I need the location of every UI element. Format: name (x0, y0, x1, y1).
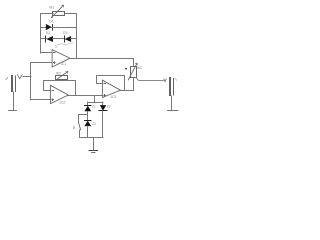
svg-text:W3: W3 (137, 66, 142, 70)
diode D6 (84, 121, 91, 138)
ground (89, 138, 98, 153)
wire IC1 top input (41, 52, 52, 54)
wire IC3 output (121, 90, 134, 92)
wire diode bus (88, 102, 103, 104)
svg-text:Z2: Z2 (107, 105, 111, 109)
wire IC3 feedback loop (97, 76, 125, 91)
label V (earphone) (164, 79, 166, 82)
wire switch branch (79, 115, 88, 123)
earphone PH1 (167, 78, 177, 111)
wire feedback right rail (76, 14, 78, 59)
diode D5 (99, 102, 107, 138)
wire drop to limiter diodes (94, 95, 96, 102)
wire mic to input rail (23, 76, 31, 78)
svg-text:B: B (73, 125, 76, 130)
svg-text:1C1: 1C1 (60, 62, 66, 66)
wire to earphone (136, 78, 163, 81)
svg-text:D2: D2 (46, 31, 50, 35)
artifact squiggle (55, 43, 73, 48)
diode D2 (41, 36, 64, 42)
rheostat W2 (55, 71, 67, 80)
op-amp IC1 (52, 50, 70, 67)
tick right of earphone (175, 78, 176, 80)
rheostat W1 (41, 5, 77, 18)
wire IC1 output to W3 (71, 59, 134, 67)
wire to IC2 lower input (31, 99, 50, 101)
svg-text:1C3: 1C3 (110, 95, 116, 99)
tick left edge (6, 78, 8, 80)
wire IC2 output to IC3 lower input (67, 95, 102, 97)
op-amp IC3 (102, 80, 120, 97)
svg-text:1C2: 1C2 (59, 101, 65, 105)
microphone MIC1 (8, 76, 16, 111)
node input rail (30, 63, 32, 100)
svg-text:D1: D1 (49, 19, 53, 23)
svg-text:W1: W1 (49, 6, 54, 10)
svg-text:Z3: Z3 (92, 122, 96, 126)
diode D1 (41, 24, 77, 30)
wire W2 to IC2 output (56, 81, 76, 96)
op-amp IC2 (50, 85, 68, 103)
switch B (79, 123, 81, 138)
rheostat W3 (125, 63, 137, 90)
svg-text:D3: D3 (63, 31, 67, 35)
wire bottom rail (80, 137, 103, 139)
svg-text:W2: W2 (56, 71, 61, 75)
diode D3 (65, 36, 77, 42)
wire IC2 top input / feedback loop (44, 81, 56, 91)
wire feedback left rail (40, 14, 42, 54)
svg-text:Z1: Z1 (92, 105, 96, 109)
diode D4 (84, 102, 91, 121)
label V (mic) (17, 75, 22, 79)
wire to IC1 lower input (31, 62, 52, 64)
